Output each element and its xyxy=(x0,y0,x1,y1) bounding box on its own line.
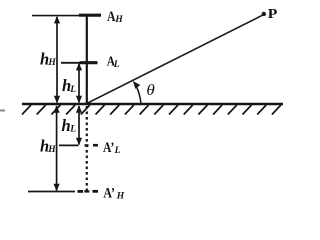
svg-text:H: H xyxy=(47,58,56,68)
svg-text:L: L xyxy=(69,125,76,135)
svg-text:L: L xyxy=(113,60,120,70)
svg-text:h: h xyxy=(62,116,71,135)
svg-text:H: H xyxy=(116,191,125,201)
svg-text:A’: A’ xyxy=(103,140,114,156)
svg-text:θ: θ xyxy=(146,82,155,99)
svg-text:A’: A’ xyxy=(103,185,115,201)
svg-text:L: L xyxy=(114,146,121,156)
svg-text:L: L xyxy=(69,85,76,95)
svg-text:H: H xyxy=(47,145,56,155)
svg-text:P: P xyxy=(268,7,278,22)
svg-text:H: H xyxy=(114,15,123,25)
